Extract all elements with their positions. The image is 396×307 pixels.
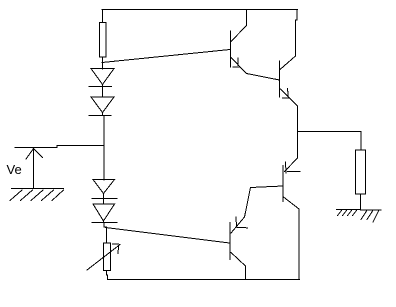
wire D1-D2 stub (102, 87, 104, 98)
wire R1 bottom stub (102, 57, 104, 69)
wire node bias-bottom to Q4 base (106, 228, 230, 244)
wire top supply rail (102, 9, 298, 11)
wire Q1 emitter to Q2 base (247, 74, 280, 81)
svg-text:Ve: Ve (7, 162, 22, 177)
transistor Q1 collector (231, 10, 247, 42)
wire D3-D4 stub (103, 199, 105, 205)
wire D4 to potentiometer (104, 223, 107, 244)
wire Ve input to center node (15, 146, 104, 148)
resistor R1 (100, 23, 107, 58)
transistor Q2 emitter (281, 89, 298, 107)
diode D4 (92, 204, 117, 223)
diode D3 (92, 180, 117, 199)
transistor Q3 base bar (282, 166, 284, 202)
transistor Q2 collector (280, 10, 297, 70)
potentiometer P1 arrow (87, 244, 120, 270)
transistor Q3 collector (284, 197, 300, 280)
transistor Q2 base bar (279, 61, 281, 97)
wire output node to load (298, 131, 362, 133)
wire R1 top stub (102, 10, 104, 23)
ground left (10, 189, 64, 201)
wire Q3 base to Q4 emitter (251, 186, 284, 188)
diode D2 (89, 97, 114, 116)
potentiometer P1 body (104, 243, 111, 271)
transistor Q4 base bar (229, 223, 231, 260)
wire load resistor top stub (360, 132, 362, 151)
transistor Q4 emitter (231, 188, 251, 234)
ground right (337, 210, 382, 223)
transistor Q4 collector (231, 253, 246, 280)
source Ve arrow (26, 148, 43, 189)
wire load resistor bottom stub (360, 194, 362, 210)
transistor Q3 emitter (285, 158, 301, 173)
wire P1 bottom stub (107, 271, 108, 280)
wire Q2 emitter to output node (297, 106, 299, 158)
transistor Q1 base bar (230, 31, 232, 67)
diode D1 (89, 69, 114, 87)
wire node bias-top to Q1 base (102, 50, 230, 63)
resistor RL load (356, 150, 366, 194)
wire bottom supply rail (108, 279, 300, 281)
transistor Q1 emitter (231, 58, 247, 74)
wire center column D2 to D3 (103, 116, 105, 181)
